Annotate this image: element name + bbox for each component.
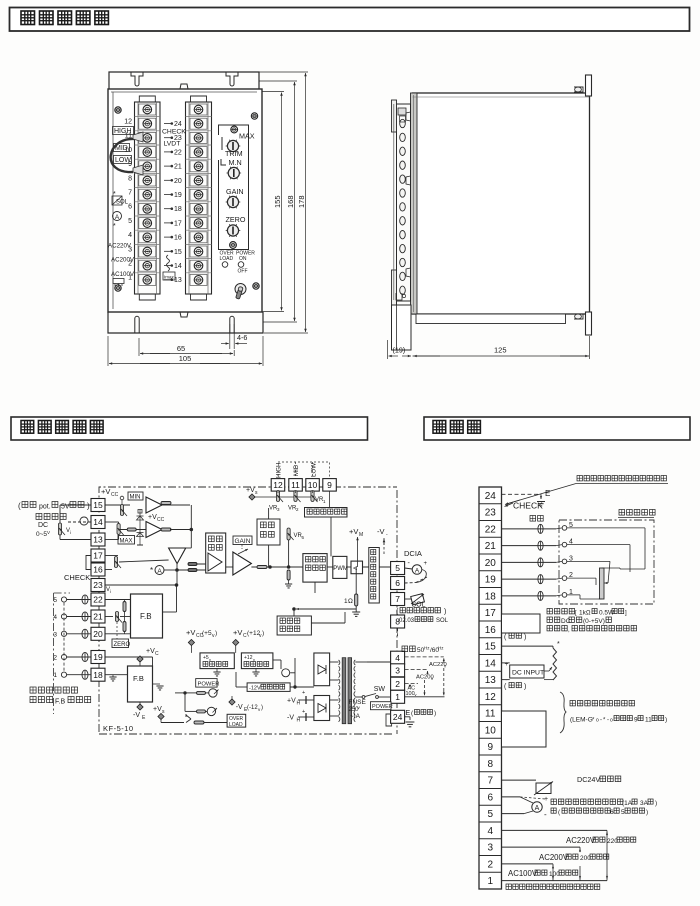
svg-text:9: 9 (487, 742, 493, 753)
svg-text:2: 2 (487, 859, 493, 870)
terminal 21 (91, 610, 105, 623)
dashed link of externals (63, 603, 65, 672)
box at terminals 12..9 (502, 711, 547, 747)
svg-text:15: 15 (174, 249, 182, 256)
range arrows (606, 830, 608, 880)
补偿回路 block (206, 533, 226, 573)
supply terminal (158, 713, 164, 719)
svg-text:-V: -V (377, 527, 385, 536)
svg-text:CC: CC (111, 492, 119, 498)
external dash-dot enclosure left (53, 593, 55, 714)
wire limit block to bus (268, 508, 270, 519)
svg-text:125: 125 (494, 346, 507, 355)
svg-text:0~5: 0~5 (36, 531, 47, 538)
svg-text:GAIN: GAIN (226, 187, 244, 196)
terminal 15 (91, 499, 105, 512)
浪涌电压吸收回路 vertical block (369, 548, 380, 604)
svg-text:1: 1 (53, 672, 57, 679)
annotation 小规模F.B检测器 (30, 697, 53, 703)
svg-text:): ) (655, 800, 657, 807)
terminal 3 (391, 664, 405, 677)
input resistor zigzag (553, 648, 557, 680)
bottom bracket slot (229, 319, 231, 334)
svg-text:15: 15 (485, 642, 497, 653)
svg-text:AC220V: AC220V (108, 243, 132, 250)
terminal screw (190, 274, 207, 285)
svg-text:5: 5 (395, 563, 400, 573)
svg-text:(19): (19) (393, 346, 406, 355)
wires 15,14,13 (502, 645, 554, 647)
lead loop (538, 524, 543, 533)
svg-text:8: 8 (487, 759, 493, 770)
svg-text:2: 2 (395, 679, 400, 689)
strip clamp bar top (392, 100, 397, 132)
svg-text:i: i (70, 530, 71, 535)
strip top connector details (398, 108, 406, 115)
svg-text:(LEM-G: (LEM-G (570, 717, 593, 724)
terminal screw (135, 144, 161, 146)
svg-text:4-6: 4-6 (237, 333, 247, 342)
MIN boxed label (128, 492, 143, 500)
resistor (161, 502, 171, 505)
svg-text:18: 18 (485, 591, 497, 602)
leader line (508, 484, 576, 504)
+12v 稳压回路 block (241, 653, 273, 669)
svg-text:F.B: F.B (140, 612, 152, 621)
lead loop (538, 575, 543, 584)
wire 18 (105, 674, 128, 676)
pot plate screw top (231, 126, 238, 133)
supply terminal (229, 699, 235, 705)
svg-text:+: + (302, 709, 305, 715)
left lower bracket profile (392, 305, 412, 350)
svg-text:6: 6 (395, 578, 400, 588)
terminal 13 (91, 533, 105, 546)
detector internal wiring (567, 527, 645, 529)
wire AC 4 (405, 656, 444, 658)
wire 9 to osc box (329, 491, 331, 508)
svg-text:): ) (434, 710, 436, 717)
svg-text:100: 100 (406, 691, 415, 697)
SOL symbol (411, 594, 425, 605)
svg-text:18: 18 (93, 670, 103, 680)
terminal 17 (91, 549, 105, 562)
terminal screw (135, 158, 161, 160)
svg-text:16: 16 (93, 565, 103, 575)
switch lever (365, 694, 376, 697)
svg-text:MID: MID (115, 145, 128, 152)
terminal screw (186, 243, 212, 245)
svg-text:+V: +V (148, 514, 157, 521)
terminal screw (186, 187, 212, 189)
pot plate outline (219, 125, 249, 250)
wire 15 (105, 504, 130, 506)
potentiometer (58, 523, 61, 535)
terminal screw (186, 258, 212, 260)
detector pin (562, 593, 567, 598)
selector terminal 11 (289, 479, 303, 492)
position detector dash-dot box (559, 520, 654, 604)
selector terminal 10 (306, 479, 320, 492)
resistor (123, 622, 126, 632)
terminal 16 (91, 563, 105, 576)
chassis bottom plate (416, 314, 566, 324)
DC24V solenoid (502, 779, 537, 781)
wires 17/16 loop (86, 556, 91, 570)
svg-text:E: E (545, 489, 550, 498)
svg-text:Ω: Ω (348, 598, 353, 605)
svg-text:4: 4 (128, 232, 132, 239)
svg-text:+V: +V (146, 648, 155, 655)
panel screw top-right (251, 113, 257, 119)
detector potentiometer (600, 568, 605, 599)
terminal screw (135, 130, 161, 132)
LOW label (114, 156, 132, 164)
detector pin (562, 526, 567, 531)
terminal screw (135, 258, 161, 260)
svg-text:): ) (261, 705, 263, 711)
external terminal (61, 631, 66, 636)
svg-text:9: 9 (327, 480, 332, 490)
wire to amp 2 (119, 529, 146, 531)
svg-text:16: 16 (174, 235, 182, 242)
svg-text:+V: +V (186, 628, 195, 637)
E ground at terminal 24 (502, 493, 542, 495)
panel screw bottom-right (253, 283, 259, 289)
svg-text:SW: SW (374, 686, 386, 693)
svg-text:A: A (535, 805, 540, 812)
right mounting flange bottom (586, 312, 592, 335)
HIGH label (113, 127, 134, 135)
svg-text:*: * (113, 223, 116, 230)
svg-text:20: 20 (174, 178, 182, 185)
terminal 2 (391, 677, 405, 690)
svg-text:LVDT: LVDT (164, 141, 181, 148)
supply terminal (137, 704, 143, 710)
svg-text:17: 17 (485, 608, 497, 619)
ammeter external (412, 565, 422, 575)
svg-text:21: 21 (485, 541, 497, 552)
svg-text:A: A (415, 568, 420, 575)
diode pair symbols (138, 510, 142, 514)
title bar: 回路结构图 (11, 417, 368, 440)
svg-text:H: H (297, 701, 301, 707)
svg-text:): ) (215, 630, 217, 637)
resistor (161, 528, 171, 531)
svg-text:8: 8 (128, 175, 132, 182)
svg-text:6: 6 (610, 809, 614, 816)
resistor (188, 563, 197, 566)
svg-text:22: 22 (485, 524, 497, 535)
panel screw bottom-left (115, 285, 121, 291)
terminal screw (186, 201, 212, 203)
svg-text:7: 7 (487, 776, 493, 787)
svg-text:6: 6 (128, 204, 132, 211)
front view: top mounting bracket (109, 72, 259, 89)
svg-text:-V: -V (287, 715, 294, 722)
transistor for overload (186, 715, 191, 719)
svg-text:(+5: (+5 (202, 630, 212, 637)
terminal screw (186, 272, 212, 274)
svg-text:11: 11 (291, 480, 300, 490)
svg-text:-V: -V (236, 704, 243, 711)
selection brace (560, 692, 566, 733)
external terminal (61, 654, 66, 659)
svg-text:LOW: LOW (311, 463, 318, 477)
F.B block upper (131, 594, 163, 638)
wire 14 (105, 521, 114, 523)
terminal screw (186, 144, 212, 146)
ZERO label (112, 639, 129, 648)
svg-text:+: + (544, 796, 548, 803)
wire AC 3 (405, 669, 428, 671)
svg-text:23: 23 (93, 580, 103, 590)
svg-text:105: 105 (179, 354, 192, 363)
svg-text:9: 9 (634, 717, 638, 724)
terminal screw (135, 272, 161, 274)
terminal 14 (91, 516, 105, 529)
AC rows 4..1 (502, 829, 608, 831)
svg-text:LOW: LOW (115, 157, 131, 164)
高频脉动振荡 box (305, 508, 348, 518)
svg-text:): ) (524, 684, 526, 691)
svg-text:HIGH: HIGH (114, 128, 132, 135)
svg-text:): ) (665, 717, 667, 724)
terminal screw (186, 215, 212, 217)
svg-text:GAIN: GAIN (235, 538, 251, 545)
svg-text:MAX: MAX (120, 538, 133, 544)
ground on 18 (109, 677, 116, 681)
svg-text:CC: CC (157, 517, 165, 523)
svg-text:DC INPUT: DC INPUT (512, 670, 544, 677)
MAX trim pot (227, 140, 238, 151)
loop-through terminal (82, 629, 88, 638)
power indicator LEDs (209, 689, 217, 697)
svg-text:C: C (155, 651, 159, 657)
svg-text:15: 15 (93, 500, 103, 510)
svg-text:5: 5 (128, 218, 132, 225)
svg-text:22: 22 (174, 149, 182, 156)
svg-text:CHECK: CHECK (162, 129, 186, 136)
toggle switch (235, 284, 246, 295)
terminal strip side profile outer (397, 104, 411, 301)
svg-text:ON: ON (239, 256, 247, 262)
dim 178 (259, 71, 308, 73)
terminal 5 (391, 562, 405, 575)
supply terminal (137, 656, 143, 662)
svg-text:3: 3 (395, 665, 400, 675)
terminal screw (186, 229, 212, 231)
svg-text:AC100V: AC100V (508, 869, 538, 878)
bottom bracket slot (134, 319, 136, 334)
panel screw top-left (115, 107, 121, 113)
front panel outline (108, 89, 262, 312)
right terminal strip (186, 102, 212, 294)
feedback line (300, 608, 356, 610)
terminal 23 (91, 579, 105, 592)
svg-text:V: V (47, 530, 50, 535)
svg-text:3A: 3A (640, 800, 649, 807)
terminal 6 (391, 577, 405, 590)
svg-text:AC220V: AC220V (566, 836, 596, 845)
svg-text:5: 5 (621, 809, 625, 816)
junction main (176, 569, 179, 572)
svg-text:LOAD: LOAD (229, 722, 243, 728)
dim 155 (262, 91, 284, 93)
svg-text:11: 11 (485, 709, 496, 720)
terminal 24 (391, 710, 405, 723)
svg-text:22: 22 (93, 595, 103, 605)
terminal screw (135, 116, 161, 118)
svg-text:TRIM: TRIM (225, 149, 243, 158)
box at terminals 17/16 (502, 614, 541, 633)
svg-text:155: 155 (273, 195, 282, 208)
svg-text:6: 6 (487, 792, 493, 803)
terminal 18 (91, 668, 105, 681)
svg-text:18: 18 (174, 206, 182, 213)
wire AC common 1 (405, 696, 445, 698)
external terminal (61, 672, 66, 677)
title bar: 外形尺寸图 (10, 8, 690, 32)
terminal screw (135, 243, 161, 245)
wiring terminal strip (479, 487, 502, 889)
svg-text:7: 7 (395, 594, 400, 604)
svg-text:+12: +12 (244, 655, 253, 661)
jumper wire loop 11-9 (111, 139, 135, 172)
unit boundary dash-dot box (99, 487, 397, 598)
resistor (257, 566, 267, 569)
POWER boxed label 2 (371, 702, 392, 710)
annotation 可动线圈型直流电流表 (551, 799, 623, 804)
svg-text:): ) (524, 634, 526, 641)
lead loop (538, 541, 543, 550)
稳流控制回路 block (303, 554, 327, 583)
resistor to gnd (287, 570, 290, 580)
GAIN amp (233, 552, 252, 575)
lead loop (538, 591, 543, 600)
resistor (194, 721, 204, 724)
wire 19 (105, 656, 153, 658)
svg-text:4: 4 (395, 653, 400, 663)
annotation 指令电压 (36, 514, 66, 520)
transistor after +12v (282, 669, 290, 677)
svg-text:(1A: (1A (622, 800, 633, 807)
svg-text:-V: -V (133, 712, 140, 719)
terminal 19 (91, 651, 105, 664)
potentiometer (276, 491, 279, 502)
bottom dim line (387, 340, 389, 359)
svg-text:M: M (359, 532, 363, 538)
svg-text:-12V: -12V (249, 685, 261, 691)
output line to terminal 5 (363, 566, 392, 568)
svg-text:17: 17 (174, 220, 182, 227)
svg-text:13: 13 (485, 675, 497, 686)
电源50/60 label (402, 646, 415, 652)
svg-text:KF-5-10: KF-5-10 (103, 724, 134, 733)
svg-text:PWM: PWM (333, 566, 348, 572)
svg-text:178: 178 (297, 195, 306, 208)
svg-text:): ) (87, 502, 90, 511)
terminal screw (186, 130, 212, 132)
svg-text:MIN: MIN (130, 495, 141, 501)
bracket center tab (180, 84, 188, 89)
resistor (123, 602, 126, 612)
svg-text:+V: +V (101, 487, 110, 496)
svg-text:21: 21 (93, 612, 103, 622)
svg-text:7: 7 (128, 190, 132, 197)
svg-text:MID: MID (293, 464, 300, 476)
svg-text:+V: +V (287, 698, 296, 705)
svg-text:*: * (113, 191, 116, 198)
power LED (238, 262, 244, 268)
pot 17-16 (114, 557, 117, 568)
引线 label (530, 516, 543, 522)
potentiometer (311, 491, 314, 502)
wire loop at 24 (386, 714, 392, 726)
resistor (197, 691, 206, 694)
terminal 7 (391, 593, 405, 606)
terminal screw (186, 158, 212, 160)
svg-text:0.5W: 0.5W (599, 610, 615, 617)
svg-text:4: 4 (53, 614, 57, 621)
svg-text:F.B: F.B (133, 674, 144, 683)
earth ground (406, 722, 415, 727)
terminal 22 (91, 593, 105, 606)
svg-text:M.N: M.N (229, 158, 242, 167)
svg-text:AC200V: AC200V (539, 853, 569, 862)
terminal 8 (391, 615, 405, 628)
svg-text:MAX: MAX (239, 132, 255, 141)
dim 65 (138, 338, 140, 356)
junction (175, 584, 178, 587)
svg-text:12: 12 (124, 119, 132, 126)
terminal screw (186, 172, 212, 174)
svg-text:+V: +V (349, 527, 358, 536)
terminal 20 (91, 627, 105, 640)
latch bumps on panel edge (406, 112, 411, 121)
svg-text:02.03: 02.03 (399, 618, 415, 624)
-12V稳压回路 block (247, 683, 290, 692)
过负荷保护回路 block (277, 616, 311, 635)
svg-text:+V: +V (233, 628, 242, 637)
loop-through terminal (82, 612, 88, 621)
op-amp U2 (146, 522, 162, 538)
svg-text:65: 65 (177, 344, 185, 353)
VR bus wire (254, 496, 313, 498)
dashed diag (416, 577, 427, 583)
svg-text:(: ( (18, 502, 21, 511)
front panel thickness band (411, 93, 418, 314)
small inductor symbol near 14 (167, 255, 170, 271)
gain arrow (238, 549, 248, 554)
supply terminal (188, 639, 194, 645)
svg-text:16: 16 (485, 625, 497, 636)
svg-text:14: 14 (174, 263, 182, 270)
svg-text:12: 12 (485, 692, 497, 703)
potentiometer (294, 491, 297, 502)
+5v 稳压回路 block (200, 653, 234, 669)
svg-text:A: A (157, 568, 162, 575)
svg-text:100: 100 (549, 871, 560, 878)
svg-text:): ) (646, 809, 648, 816)
svg-text:(0-+5V): (0-+5V) (583, 618, 605, 625)
pot plate screw bottom (230, 242, 237, 249)
ammeter symbol left (113, 212, 122, 221)
terminal screw (135, 201, 161, 203)
svg-text:-: - (544, 810, 547, 819)
bracket slot (226, 72, 230, 84)
supply terminal (249, 494, 255, 500)
